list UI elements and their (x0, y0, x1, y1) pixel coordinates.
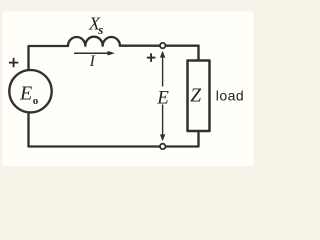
arrowhead up (toward top node) (160, 51, 165, 58)
figure white panel (3, 12, 254, 167)
current arrow I under inductor (74, 52, 109, 54)
wire load bottom down and bottom horizontal (29, 114, 199, 147)
svg-text:s: s (97, 22, 103, 37)
svg-text:E: E (156, 88, 169, 109)
page background (0, 0, 268, 177)
arrowhead down (toward bottom node) (160, 134, 165, 141)
plus sign right (E polarity) (147, 53, 156, 62)
wire right vertical into load (197, 46, 199, 61)
svg-text:E: E (19, 83, 32, 105)
plus sign left (source polarity) (9, 58, 18, 67)
svg-text:Z: Z (190, 86, 201, 107)
svg-text:o: o (33, 95, 39, 107)
E measurement arrow shaft (with gap for label) (162, 54, 164, 138)
svg-text:load: load (216, 88, 244, 104)
source circle E0 (9, 70, 51, 112)
wire left vertical + top-left horizontal (29, 46, 69, 69)
load rectangle Z (188, 61, 210, 132)
node top terminal (160, 43, 165, 48)
wire inductor to top node to right corner (120, 45, 199, 47)
inductor Xs coil (68, 37, 120, 46)
node bottom terminal (160, 144, 165, 149)
svg-text:I: I (89, 53, 96, 70)
